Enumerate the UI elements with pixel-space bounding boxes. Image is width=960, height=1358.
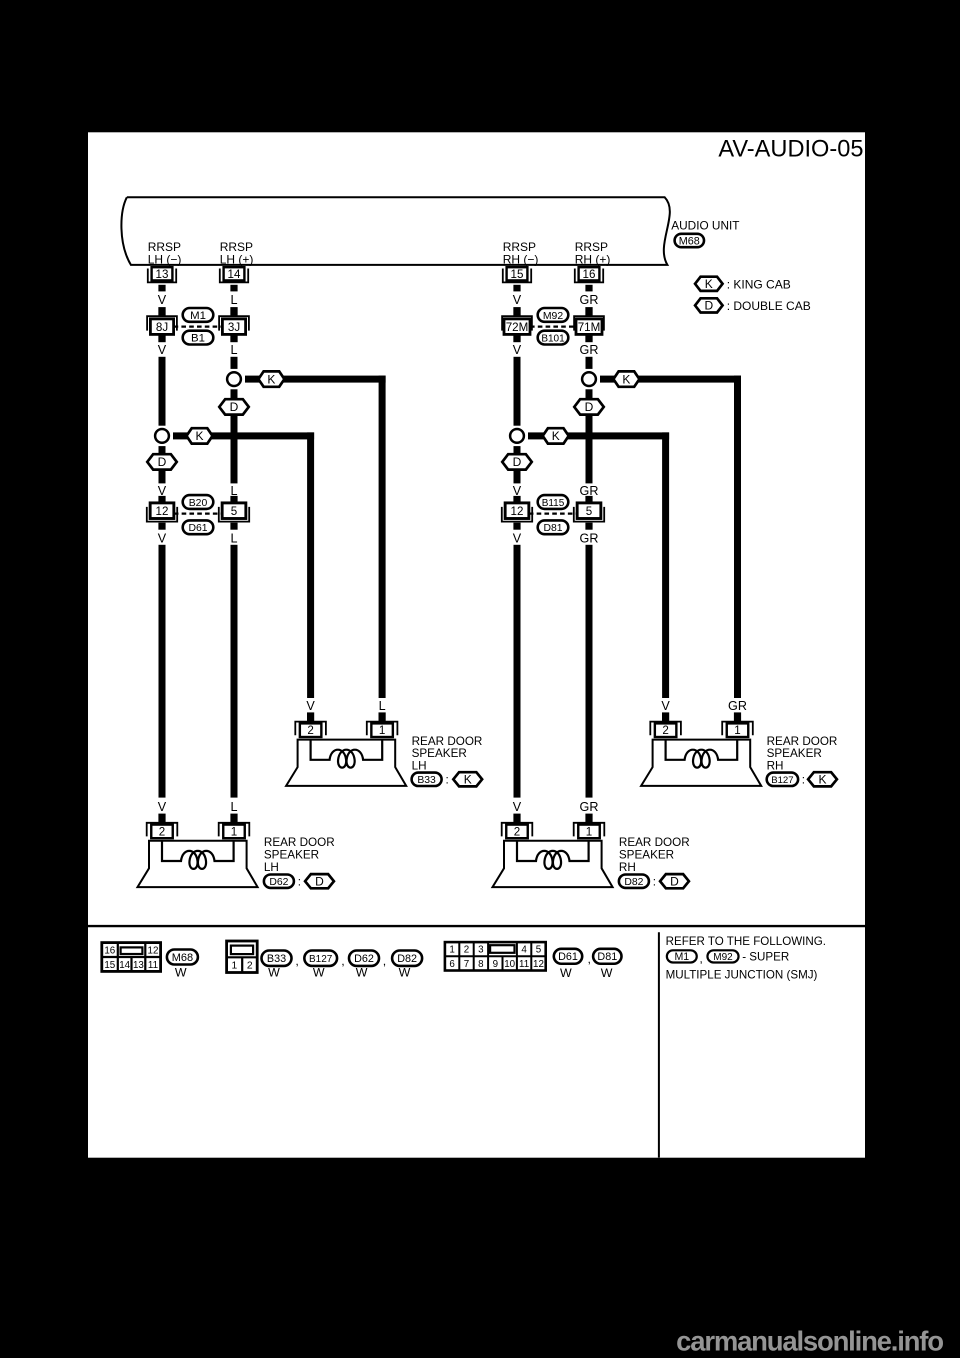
svg-text:B127: B127: [771, 775, 793, 786]
svg-text:D61: D61: [558, 951, 578, 963]
svg-text:D82: D82: [397, 953, 417, 965]
flag K on col2 branch: [258, 371, 284, 386]
svg-text:L: L: [230, 484, 237, 498]
svg-text:15: 15: [104, 960, 115, 971]
flag D on col1: [147, 454, 177, 469]
svg-text:W: W: [313, 966, 325, 980]
connector ref B20: [183, 495, 214, 509]
connector ref B101: [538, 331, 569, 345]
svg-text:REFER TO THE FOLLOWING.: REFER TO THE FOLLOWING.: [666, 935, 826, 948]
junction node col3: [510, 429, 524, 443]
junction node col1: [155, 429, 169, 443]
svg-text:V: V: [513, 800, 522, 814]
svg-text::: :: [653, 875, 656, 888]
connector ref B115: [538, 495, 569, 509]
svg-text:B33: B33: [417, 775, 436, 786]
svg-text:W: W: [560, 966, 572, 980]
svg-text:B115: B115: [542, 498, 565, 509]
svg-text:D: D: [670, 874, 679, 888]
svg-text:REAR DOOR: REAR DOOR: [264, 836, 335, 849]
svg-text:2: 2: [464, 945, 469, 956]
wire col3 K-branch horizontal: [528, 432, 669, 439]
svg-text:D81: D81: [597, 951, 617, 963]
svg-text:K: K: [705, 277, 713, 291]
svg-text:REAR DOOR: REAR DOOR: [619, 836, 690, 849]
svg-text:B101: B101: [541, 333, 565, 344]
wire col1 below junction: [159, 446, 166, 456]
svg-text:L: L: [230, 343, 237, 357]
flag D (D62): [305, 874, 334, 888]
wire col1 K-branch vertical: [307, 432, 314, 698]
connector terminal 12 (left): [158, 496, 165, 503]
svg-text:AV-AUDIO-05: AV-AUDIO-05: [718, 137, 863, 163]
svg-text:6: 6: [449, 959, 455, 970]
svg-text:M92: M92: [543, 311, 563, 322]
svg-text:- SUPER: - SUPER: [742, 950, 789, 963]
divider line: [658, 932, 660, 1157]
svg-text:M1: M1: [674, 951, 689, 963]
svg-text:B1: B1: [191, 332, 205, 344]
svg-text:M68: M68: [679, 235, 700, 247]
svg-text:K: K: [552, 429, 560, 443]
svg-text:5: 5: [586, 505, 592, 518]
wire col4 K-branch horizontal: [600, 376, 741, 383]
speaker body D82: [493, 841, 613, 887]
wire col2 D-run long: [231, 414, 238, 483]
connector ref B1: [183, 331, 214, 345]
svg-text:D82: D82: [624, 877, 643, 888]
flag D on col3: [502, 454, 532, 469]
junction node col4: [582, 372, 596, 386]
connector ref M92: [538, 308, 569, 322]
connector ref M68 (face): [167, 950, 198, 965]
connector face 2-pin grid: [227, 941, 258, 973]
svg-text:GR: GR: [580, 343, 599, 357]
svg-text:D: D: [158, 455, 167, 469]
wire col2 below junction: [231, 389, 238, 399]
svg-text:D: D: [315, 874, 324, 888]
connector ref M68 (audio unit): [675, 234, 704, 247]
svg-text:2: 2: [662, 724, 668, 737]
svg-text:D81: D81: [543, 523, 562, 534]
svg-text:L: L: [230, 532, 237, 546]
svg-text:,: ,: [588, 952, 591, 966]
svg-text:AUDIO UNIT: AUDIO UNIT: [671, 218, 739, 232]
wire col1 to rear speaker: [159, 545, 166, 798]
svg-text:GR: GR: [728, 699, 747, 713]
speaker body D62: [138, 841, 258, 887]
connector face M68 grid: [102, 943, 161, 972]
svg-text:W: W: [268, 966, 280, 980]
svg-text:13: 13: [156, 268, 169, 281]
svg-text:V: V: [513, 532, 522, 546]
svg-text:1: 1: [379, 724, 385, 737]
pin 15 (audio unit): [507, 267, 528, 280]
svg-text:: DOUBLE CAB: : DOUBLE CAB: [727, 299, 811, 313]
svg-text:11: 11: [519, 959, 529, 970]
svg-text::: :: [446, 773, 449, 786]
wire col1 vertical to junction: [159, 357, 166, 426]
svg-text:V: V: [158, 800, 167, 814]
svg-text:2: 2: [247, 961, 253, 972]
dashed link 12-5 (right): [529, 512, 577, 514]
svg-text:12: 12: [156, 505, 169, 518]
flag K on col3 branch: [543, 428, 569, 443]
speaker pin 1 (B33): [379, 712, 386, 722]
svg-text:L: L: [230, 293, 237, 307]
wire col2 K-branch vertical: [379, 376, 386, 698]
legend flag K: [695, 277, 723, 291]
connector ref B33 (face): [262, 951, 292, 966]
svg-text:9: 9: [493, 959, 498, 970]
svg-text::: :: [802, 773, 805, 786]
svg-text:8: 8: [478, 959, 484, 970]
svg-text:K: K: [195, 429, 203, 443]
svg-text:16: 16: [104, 945, 115, 956]
svg-text:D61: D61: [188, 523, 207, 534]
wire col3 K-branch vertical: [662, 432, 669, 698]
svg-text:K: K: [464, 773, 472, 787]
svg-text:B33: B33: [267, 953, 286, 965]
wire col4 to rear speaker: [586, 545, 593, 798]
connector ref B127 (speaker): [767, 773, 798, 786]
svg-text:10: 10: [504, 959, 515, 970]
svg-text:K: K: [818, 773, 826, 787]
svg-text:V: V: [306, 699, 315, 713]
wire col4 D-run long: [586, 414, 593, 483]
svg-text:: KING CAB: : KING CAB: [727, 277, 791, 291]
wire col2 K-branch horizontal: [245, 376, 386, 383]
svg-text:LH: LH: [264, 861, 279, 874]
connector ref D61 (link): [183, 520, 214, 534]
svg-text:L: L: [230, 800, 237, 814]
svg-text:1: 1: [449, 945, 454, 956]
connector terminal 5 (left): [230, 496, 237, 503]
svg-text:K: K: [622, 372, 630, 386]
connector terminal 5 (right): [585, 496, 592, 503]
SMJ terminal 72M: [513, 307, 520, 315]
flag K on col4 branch: [613, 371, 639, 386]
speaker pin 2 (D82): [513, 814, 520, 824]
speaker body B33: [286, 740, 406, 786]
svg-text:GR: GR: [580, 293, 599, 307]
svg-text:5: 5: [231, 505, 237, 518]
svg-text:2: 2: [307, 724, 313, 737]
svg-text:3: 3: [478, 945, 484, 956]
svg-text:M92: M92: [713, 952, 733, 963]
speaker pin 2 (D62): [158, 814, 165, 824]
svg-text:RH (−): RH (−): [503, 252, 539, 266]
svg-text:carmanualsonline.info: carmanualsonline.info: [676, 1326, 943, 1357]
svg-text:B127: B127: [309, 954, 333, 965]
flag D on col2: [219, 399, 249, 414]
connector face 12-pin grid: [445, 942, 546, 970]
SMJ dashed link 8J-3J: [174, 325, 223, 327]
legend flag D: [695, 298, 723, 312]
svg-text:16: 16: [583, 268, 596, 281]
SMJ terminal 8J: [158, 307, 165, 315]
speaker pin 2 (B33): [307, 712, 314, 722]
svg-text:12: 12: [148, 945, 159, 956]
connector ref D61 (face): [554, 949, 582, 964]
svg-text:SPEAKER: SPEAKER: [619, 848, 674, 861]
svg-text:V: V: [158, 532, 167, 546]
svg-text:72M: 72M: [506, 321, 529, 334]
svg-text:B20: B20: [189, 498, 208, 509]
svg-text:12: 12: [511, 505, 524, 518]
svg-text:1: 1: [231, 825, 237, 838]
wire col1 below D: [159, 469, 166, 483]
svg-text:4: 4: [521, 945, 527, 956]
wire col3 to rear speaker: [514, 545, 521, 798]
connector ref M1: [183, 308, 214, 322]
svg-text:1: 1: [586, 825, 592, 838]
speaker pin 1 (D62): [230, 814, 237, 824]
flag K on col1 branch: [187, 428, 213, 443]
svg-text:SPEAKER: SPEAKER: [412, 747, 467, 760]
svg-text:M1: M1: [190, 310, 206, 322]
connector terminal 12 (right): [513, 496, 520, 503]
svg-text:V: V: [158, 484, 167, 498]
pin 16 (audio unit): [579, 267, 600, 280]
svg-text:,: ,: [700, 953, 703, 966]
audio unit bus outline: [121, 197, 669, 265]
connector ref B127 (face): [304, 951, 337, 966]
flag K (B33): [453, 772, 482, 786]
connector ref M92 (note): [707, 950, 738, 962]
svg-text:D: D: [230, 400, 239, 414]
svg-text:1: 1: [734, 724, 740, 737]
svg-text:8J: 8J: [156, 321, 168, 334]
svg-text:LH (−): LH (−): [148, 252, 182, 266]
svg-text:,: ,: [341, 954, 344, 968]
wire col4 below junction: [586, 389, 593, 399]
svg-text:,: ,: [383, 954, 386, 968]
connector ref D62 (speaker): [264, 875, 294, 888]
svg-text:REAR DOOR: REAR DOOR: [767, 735, 838, 748]
wire col3 below D: [514, 469, 521, 483]
wire col1 K-branch horizontal: [173, 432, 314, 439]
speaker body B127: [641, 740, 761, 786]
svg-text:LH: LH: [412, 760, 427, 773]
svg-text:V: V: [158, 343, 167, 357]
wire col3 below junction: [514, 446, 521, 456]
connector ref M1 (note): [667, 950, 697, 962]
connector ref D81 (face): [593, 949, 621, 964]
svg-text:D: D: [704, 299, 713, 313]
flag K (B127): [808, 772, 837, 786]
junction node col2: [227, 372, 241, 386]
wire col4 K-branch vertical: [734, 376, 741, 698]
svg-text:GR: GR: [580, 800, 599, 814]
connector ref B33 (speaker): [412, 773, 442, 786]
svg-text:MULTIPLE JUNCTION (SMJ): MULTIPLE JUNCTION (SMJ): [666, 968, 818, 981]
svg-text:W: W: [399, 966, 411, 980]
speaker pin 2 (B127): [662, 712, 669, 722]
svg-text:K: K: [267, 372, 275, 386]
wire col4 vertical to junction: [586, 357, 593, 369]
svg-text:1: 1: [232, 961, 238, 972]
svg-text:11: 11: [148, 960, 158, 971]
svg-text:14: 14: [228, 268, 241, 281]
wire col2 vertical to junction: [231, 357, 238, 369]
wire col2 to rear speaker: [231, 545, 238, 798]
SMJ dashed link 72M-71M: [530, 325, 576, 327]
svg-text:M68: M68: [172, 952, 193, 964]
svg-text:12: 12: [533, 959, 544, 970]
svg-text:V: V: [513, 293, 522, 307]
SMJ terminal 71M: [585, 307, 592, 315]
svg-text:2: 2: [159, 825, 165, 838]
flag D (D82): [660, 874, 689, 888]
svg-text:GR: GR: [580, 484, 599, 498]
svg-text:15: 15: [511, 268, 524, 281]
svg-text:RH (+): RH (+): [575, 252, 611, 266]
svg-text::: :: [298, 875, 301, 888]
pin 14 (audio unit): [224, 267, 245, 280]
wire col3 vertical to junction: [514, 357, 521, 426]
svg-text:V: V: [661, 699, 670, 713]
speaker pin 1 (D82): [585, 814, 592, 824]
flag D on col4: [574, 399, 604, 414]
connector ref D82 (face): [392, 951, 422, 966]
svg-text:V: V: [158, 293, 167, 307]
svg-text:SPEAKER: SPEAKER: [264, 848, 319, 861]
svg-text:71M: 71M: [578, 321, 601, 334]
connector ref D81 (link): [538, 520, 569, 534]
svg-text:14: 14: [119, 960, 130, 971]
svg-text:D62: D62: [269, 877, 288, 888]
svg-text:7: 7: [464, 959, 469, 970]
svg-text:V: V: [513, 484, 522, 498]
svg-text:13: 13: [133, 960, 144, 971]
pin 13 (audio unit): [152, 267, 173, 280]
svg-text:5: 5: [536, 945, 542, 956]
svg-text:D: D: [585, 400, 594, 414]
separator line: [88, 925, 865, 927]
svg-text:SPEAKER: SPEAKER: [767, 747, 822, 760]
svg-text:RH: RH: [767, 760, 784, 773]
svg-text:RH: RH: [619, 861, 636, 874]
svg-text:V: V: [513, 343, 522, 357]
speaker pin 1 (B127): [734, 712, 741, 722]
connector ref D82 (speaker): [619, 875, 649, 888]
svg-text:3J: 3J: [228, 321, 240, 334]
svg-text:2: 2: [514, 825, 520, 838]
svg-text:L: L: [379, 699, 386, 713]
svg-text:,: ,: [295, 954, 298, 968]
SMJ terminal 3J: [230, 307, 237, 315]
svg-text:W: W: [601, 966, 613, 980]
svg-text:D: D: [513, 455, 522, 469]
svg-text:GR: GR: [580, 532, 599, 546]
svg-text:W: W: [175, 966, 187, 980]
svg-text:REAR DOOR: REAR DOOR: [412, 735, 483, 748]
svg-text:LH (+): LH (+): [220, 252, 254, 266]
svg-text:D62: D62: [354, 953, 374, 965]
page panel: [88, 132, 865, 1157]
connector ref D62 (face): [349, 951, 379, 966]
svg-text:W: W: [356, 966, 368, 980]
dashed link 12-5 (left): [174, 512, 222, 514]
